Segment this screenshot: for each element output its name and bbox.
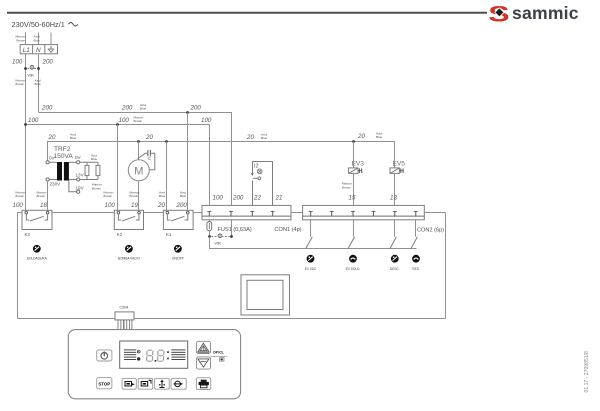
earth symbol <box>48 46 53 52</box>
icon BOMBA VACIO <box>118 245 140 260</box>
wire 200 to K1 <box>176 113 188 213</box>
CON4 ribbon wires <box>118 320 132 330</box>
label Marron/Brown + 100 (K3 left) <box>13 191 26 210</box>
svg-text:CON4: CON4 <box>120 306 129 310</box>
svg-text:K1: K1 <box>166 232 172 237</box>
varistor VdR (top) <box>24 65 40 78</box>
svg-text:K2: K2 <box>117 232 123 237</box>
connector CON2 (6p) <box>303 205 445 233</box>
svg-text:18: 18 <box>40 202 47 209</box>
svg-text:20: 20 <box>145 134 153 141</box>
svg-text:100: 100 <box>201 117 212 124</box>
svg-text:VdR: VdR <box>215 242 222 246</box>
icon EV VAC <box>305 255 317 271</box>
svg-text:0V: 0V <box>49 156 56 161</box>
svg-text:Brown: Brown <box>92 186 101 190</box>
wire into N <box>38 33 40 45</box>
svg-text:CON2 (6p): CON2 (6p) <box>417 228 444 234</box>
output wire + switch EV SOLD <box>348 220 355 249</box>
output wire + switch RES <box>411 220 418 249</box>
CON2 pin 1 <box>309 211 313 216</box>
svg-text:13: 13 <box>390 195 397 202</box>
svg-text:N: N <box>36 47 41 54</box>
power button <box>97 350 112 361</box>
wire into earth <box>50 33 52 45</box>
wire 100 from L1 down to K3 <box>25 54 27 213</box>
svg-text:21: 21 <box>275 195 283 202</box>
wire EV5 to CON2 <box>390 173 397 205</box>
svg-text:I2: I2 <box>254 164 259 170</box>
svg-text:M: M <box>134 165 143 177</box>
label 200 <box>42 59 54 66</box>
mains label 230V/50-60Hz/1 <box>12 20 78 29</box>
frame wire left side (K3 to bottom) <box>17 213 19 319</box>
svg-text:EV VAC: EV VAC <box>305 267 317 271</box>
bus 20 horizontal <box>48 132 395 168</box>
svg-text:200: 200 <box>42 59 54 66</box>
output wire + switch DESC <box>390 220 397 249</box>
connector CON1 (4p) <box>202 205 302 233</box>
svg-text:Brown: Brown <box>37 194 46 198</box>
svg-text:Blue: Blue <box>35 82 41 86</box>
transformer TRF2 150VA <box>46 146 85 193</box>
svg-text:Blue: Blue <box>159 194 165 198</box>
svg-text:20: 20 <box>357 133 365 140</box>
button vacuum <box>122 378 136 389</box>
CON2 pin 3 <box>351 211 355 216</box>
svg-text:150VA: 150VA <box>54 153 74 160</box>
svg-text:230V/50-60Hz/1: 230V/50-60Hz/1 <box>12 20 65 29</box>
svg-text:EV5: EV5 <box>393 160 406 167</box>
CON1 pin 22 <box>250 195 261 217</box>
seven segment digits 8.8 <box>146 350 163 361</box>
wire 200 below CON1 <box>231 220 233 237</box>
display bezel <box>120 341 188 368</box>
solenoid EV3 <box>349 160 365 173</box>
svg-text:Brown: Brown <box>16 82 25 86</box>
svg-text:Brown: Brown <box>342 185 351 189</box>
STOP button <box>97 378 112 389</box>
svg-text:DESC.: DESC. <box>390 267 400 271</box>
svg-text:01.17 - 2709851/8: 01.17 - 2709851/8 <box>584 351 590 393</box>
button seal <box>155 378 170 389</box>
switch/lamp I2 <box>251 161 273 206</box>
up button <box>196 341 210 353</box>
bus 200 horizontal <box>39 103 232 206</box>
svg-text:sammic: sammic <box>512 3 579 23</box>
svg-text:100: 100 <box>28 117 39 124</box>
CON1 pin 100 <box>207 195 223 217</box>
icon DESC <box>390 255 400 271</box>
svg-text:Blue: Blue <box>34 38 40 42</box>
CON2 pin 4 <box>372 211 376 216</box>
CON2 pin 6 <box>414 211 418 216</box>
svg-text:200: 200 <box>121 105 133 112</box>
solenoid EV5 <box>390 160 405 173</box>
svg-text:L1: L1 <box>23 47 31 54</box>
svg-text:100: 100 <box>119 117 130 124</box>
svg-text:Blue: Blue <box>70 136 76 140</box>
bleeder resistors on secondary <box>80 154 102 191</box>
wire 100 to K2 <box>104 125 118 213</box>
icon EV SOLD <box>346 255 361 271</box>
wire 20 to K1 <box>157 142 167 213</box>
svg-text:Blue: Blue <box>140 107 146 111</box>
svg-text:EV SOLD.: EV SOLD. <box>346 267 361 271</box>
frame wire right side down <box>445 213 447 319</box>
svg-text:K3: K3 <box>25 232 31 237</box>
display window <box>241 275 290 315</box>
svg-text:ON/OFF: ON/OFF <box>172 256 184 260</box>
relay K1 <box>163 210 193 237</box>
button gas <box>171 378 186 389</box>
svg-text:Brown: Brown <box>104 194 113 198</box>
label Azul/Blue (N) <box>34 35 40 43</box>
decimal point and colon <box>155 351 169 362</box>
svg-text:15: 15 <box>349 195 356 202</box>
capacitor C <box>138 150 155 170</box>
svg-text:13V: 13V <box>76 173 85 178</box>
icon RES <box>412 255 420 271</box>
wire from fuse to common line <box>210 237 417 249</box>
svg-text:100: 100 <box>213 195 224 202</box>
sammic logo <box>488 1 579 26</box>
svg-text:C: C <box>148 156 151 161</box>
wire 200 from N down <box>38 54 40 113</box>
label Marron/Brown (wire 100) <box>16 79 26 87</box>
svg-text:19V: 19V <box>76 186 85 191</box>
CON1 pin 200 <box>229 195 244 217</box>
label Azul/Blue (wire 200) <box>35 79 41 87</box>
icon SOLDADURA <box>27 245 48 260</box>
svg-text:100: 100 <box>12 59 23 66</box>
svg-text:22: 22 <box>253 195 261 202</box>
varistor VdR (bottom) <box>208 234 233 246</box>
wire CON2 right to frame <box>424 212 445 214</box>
svg-text:RES.: RES. <box>412 267 420 271</box>
K3 left stub wire <box>18 212 23 214</box>
OP/CL label <box>211 350 228 361</box>
doc number vertical <box>584 351 590 393</box>
wire EV3 to CON2 <box>342 142 356 206</box>
svg-text:STOP: STOP <box>98 381 110 386</box>
svg-text:19: 19 <box>131 202 138 209</box>
wire K2 to K1 <box>144 212 164 214</box>
svg-text:200: 200 <box>232 195 244 202</box>
svg-text:100: 100 <box>105 202 116 209</box>
CON2 pin 5 <box>393 211 397 216</box>
connector CON4 <box>115 306 134 320</box>
svg-text:FUS1 (0,63A): FUS1 (0,63A) <box>218 227 252 233</box>
button vacuum+seal <box>138 378 153 389</box>
svg-text:VdR: VdR <box>28 74 35 78</box>
icon ON/OFF <box>172 245 184 260</box>
frame wire bottom across <box>18 318 446 320</box>
down button <box>196 357 210 369</box>
wire into L1 <box>25 33 27 45</box>
relay K3 <box>22 210 52 237</box>
display left menu lines <box>124 350 140 361</box>
display right menu lines <box>171 350 185 360</box>
printer button <box>196 378 210 390</box>
relay K2 <box>114 210 143 237</box>
svg-text:200: 200 <box>41 105 53 112</box>
svg-text:Brown: Brown <box>16 194 25 198</box>
wire CON1 to CON2 <box>291 212 303 214</box>
svg-text:CON1 (4p): CON1 (4p) <box>275 227 302 233</box>
svg-text:OP/CL: OP/CL <box>213 350 225 354</box>
label Marron/Brown (L1) <box>15 35 25 43</box>
CON1 pin 21 <box>271 195 283 217</box>
CON2 pin 2 <box>330 211 334 216</box>
label 100 <box>12 59 23 66</box>
svg-text:Brown: Brown <box>130 194 139 198</box>
wire 19 (motor to K2) <box>130 191 140 210</box>
svg-text:Blue: Blue <box>91 157 97 161</box>
svg-text:Blue: Blue <box>376 135 382 139</box>
svg-text:Brown: Brown <box>17 38 26 42</box>
svg-text:230V: 230V <box>50 182 62 187</box>
terminal block L1 / N / earth <box>20 45 57 54</box>
svg-text:SOLDADURA: SOLDADURA <box>27 256 48 260</box>
wire K3 to K2 <box>52 212 114 214</box>
fuse FUS1 <box>207 220 212 237</box>
output wire + switch EV VAC <box>306 220 313 249</box>
svg-text:Blue: Blue <box>180 194 186 198</box>
bus 100 horizontal <box>24 116 212 206</box>
svg-text:100: 100 <box>13 202 24 209</box>
svg-text:200: 200 <box>176 202 188 209</box>
svg-text:Brown: Brown <box>134 119 143 123</box>
svg-text:Blue: Blue <box>261 136 267 140</box>
svg-text:20: 20 <box>48 134 56 141</box>
top rule <box>7 12 487 14</box>
control panel body <box>68 330 240 399</box>
svg-text:0V: 0V <box>75 155 82 160</box>
svg-text:20: 20 <box>246 134 254 141</box>
motor M1 <box>128 142 149 213</box>
svg-text:200: 200 <box>190 105 202 112</box>
wire 18 (transformer 230V to K3) <box>37 181 48 212</box>
svg-text:20: 20 <box>157 202 165 209</box>
svg-text:BOMBA VACIO: BOMBA VACIO <box>118 256 140 260</box>
wire K1 to CON1 <box>193 212 202 214</box>
